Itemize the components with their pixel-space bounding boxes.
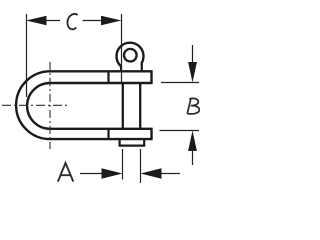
dimension A label: [58, 163, 73, 182]
dimension C label: [67, 14, 77, 29]
pin nut below bottom bar: [120, 139, 145, 146]
dimension C right extension line: [121, 14, 123, 83]
pin head ring inner circle: [124, 49, 137, 62]
pin neck left edge: [120, 66, 122, 72]
shackle bow outer outline: [16, 71, 151, 139]
bow ear boundary line bottom: [107, 129, 109, 139]
dimension A right arrowhead: [141, 168, 162, 179]
dimension B bottom arrow tail: [192, 149, 194, 165]
dimension A left arrowhead: [102, 168, 123, 179]
dimension B top extension line: [161, 82, 199, 84]
dimension C left arrowhead: [26, 16, 47, 26]
bar top edge restored under neck: [120, 70, 143, 72]
dimension B label: [187, 98, 199, 113]
pin neck right edge: [141, 63, 143, 72]
dimension A left tail line: [80, 173, 103, 175]
bow right end cap top: [150, 70, 152, 84]
dimension C left extension line: [26, 14, 28, 97]
shackle bow inner outline: [27, 83, 151, 129]
dimension A left extension line: [122, 149, 124, 180]
bow right end cap bottom: [150, 128, 152, 141]
dimension C right arrowhead: [101, 16, 122, 26]
dimension B top arrow tail: [192, 45, 194, 64]
horizontal centerline (dash-dot) of bow arc: [2, 104, 68, 106]
vertical centerline (dashed) at arc tangent x=50: [49, 62, 51, 149]
dimension C left tail line: [45, 20, 60, 22]
bow ear boundary line top: [107, 71, 109, 83]
dimension C right tail line: [83, 20, 103, 22]
dimension B bottom arrowhead: [188, 131, 197, 152]
dimension B bottom extension line: [160, 130, 200, 132]
pin neck interior (white, hides ring bottom arc): [122, 63, 141, 71]
dimension A right tail line: [161, 173, 180, 175]
pin head ring outer circle: [117, 43, 144, 70]
dimension A right extension line: [140, 149, 142, 183]
pin shaft right edge: [139, 83, 141, 129]
pin shaft left edge: [122, 83, 124, 129]
dimension B top arrowhead: [188, 62, 197, 83]
